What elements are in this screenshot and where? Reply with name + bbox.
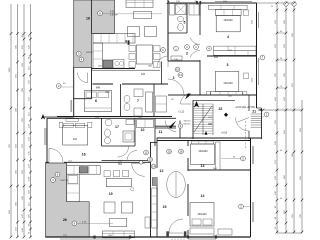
svg-text:3: 3 bbox=[227, 63, 229, 67]
svg-text:130/210: 130/210 bbox=[60, 180, 69, 182]
svg-text:22: 22 bbox=[218, 107, 222, 111]
svg-text:90/210: 90/210 bbox=[86, 52, 93, 54]
svg-text:4: 4 bbox=[227, 35, 229, 39]
svg-text:5: 5 bbox=[184, 21, 186, 25]
svg-text:404: 404 bbox=[214, 56, 219, 59]
svg-text:90/210: 90/210 bbox=[184, 121, 191, 123]
svg-text:849: 849 bbox=[96, 87, 101, 90]
svg-text:13: 13 bbox=[201, 164, 205, 168]
svg-text:9: 9 bbox=[125, 40, 127, 44]
svg-text:849: 849 bbox=[106, 91, 111, 94]
svg-text:6: 6 bbox=[95, 99, 97, 103]
svg-text:14: 14 bbox=[201, 194, 205, 198]
svg-text:160x200: 160x200 bbox=[223, 19, 233, 22]
svg-text:424: 424 bbox=[141, 73, 146, 76]
svg-text:1395: 1395 bbox=[9, 67, 11, 73]
svg-text:4.05: 4.05 bbox=[110, 12, 115, 14]
svg-text:2.60 m²: 2.60 m² bbox=[110, 14, 118, 17]
svg-text:19: 19 bbox=[109, 192, 113, 196]
svg-text:2: 2 bbox=[186, 52, 188, 56]
svg-text:160x200: 160x200 bbox=[198, 150, 208, 153]
svg-text:404: 404 bbox=[73, 138, 78, 141]
svg-text:1: 1 bbox=[173, 76, 175, 80]
svg-text:10: 10 bbox=[141, 128, 145, 132]
svg-text:+0.00: +0.00 bbox=[221, 132, 228, 135]
svg-text:7: 7 bbox=[137, 99, 139, 103]
svg-text:21: 21 bbox=[252, 109, 256, 113]
svg-text:160x200: 160x200 bbox=[223, 82, 233, 85]
svg-text:+1.22: +1.22 bbox=[178, 111, 185, 114]
svg-text:17: 17 bbox=[115, 125, 119, 129]
svg-text:160x200: 160x200 bbox=[197, 213, 207, 216]
svg-text:16: 16 bbox=[82, 152, 86, 156]
svg-text:18: 18 bbox=[86, 17, 90, 21]
svg-text:80/210: 80/210 bbox=[184, 124, 191, 126]
svg-text:15: 15 bbox=[163, 205, 167, 209]
svg-text:385: 385 bbox=[208, 123, 213, 126]
svg-text:351: 351 bbox=[118, 163, 123, 166]
svg-text:12: 12 bbox=[160, 169, 164, 173]
svg-text:11: 11 bbox=[159, 130, 163, 134]
svg-text:26: 26 bbox=[63, 218, 67, 222]
svg-text:+0.00 (dpl.+67.05): +0.00 (dpl.+67.05) bbox=[235, 106, 255, 109]
